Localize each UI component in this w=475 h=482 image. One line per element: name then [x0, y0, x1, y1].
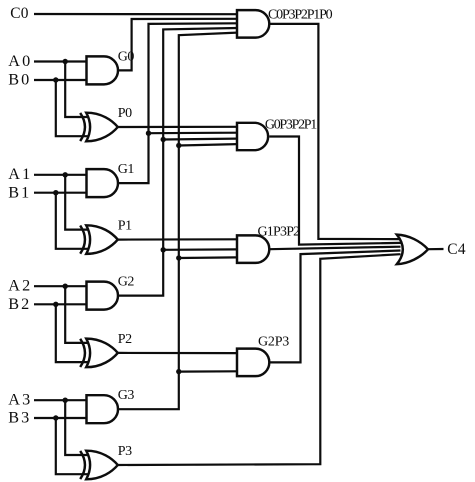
junction G3/U7: [176, 255, 181, 260]
junction A2: [62, 284, 67, 289]
wire G2 tap to AND U7 pin 2: [163, 248, 237, 251]
junction G3/U6: [176, 143, 181, 148]
wire G3 output bus: [118, 33, 237, 410]
wire B1 to XOR P1 pin 2: [56, 193, 89, 249]
svg-text:P3: P3: [118, 444, 132, 459]
junction G2/U6: [161, 137, 166, 142]
svg-text:G0P3P2P1: G0P3P2P1: [265, 118, 317, 133]
wire G2 output bus: [118, 28, 237, 296]
svg-text:C4: C4: [447, 241, 466, 258]
svg-text:G3: G3: [118, 388, 135, 403]
wire A0: [34, 60, 87, 62]
and-gate U5 C0P3P2P1P0: [237, 10, 269, 37]
wire G3 tap to AND U8 pin 2: [179, 370, 237, 373]
wire U7 output to OR U9 pin 3: [269, 247, 400, 250]
and-gate U6 G0P3P2P1: [237, 123, 268, 150]
svg-text:A0: A0: [8, 52, 32, 70]
xor-gate P2: [80, 339, 118, 368]
junction B2: [53, 302, 58, 307]
svg-text:P2: P2: [118, 332, 132, 347]
wire G0 output to AND U5 pin 2: [118, 19, 237, 71]
svg-text:P1: P1: [118, 219, 132, 234]
xor-gate P1: [80, 225, 118, 254]
wire B3: [34, 417, 87, 419]
wire A2: [34, 285, 87, 287]
svg-text:B2: B2: [8, 295, 31, 313]
wire P1 output to AND U7 pin 1: [118, 238, 237, 241]
junction G2/U7: [161, 247, 166, 252]
wire G3 tap to AND U7 pin 3: [179, 256, 237, 259]
junction B1: [53, 190, 58, 195]
wire B3 to XOR P3 pin 2: [56, 418, 89, 474]
and-gate G1: [87, 169, 119, 197]
wire P2 output to AND U8 pin 1: [118, 352, 237, 354]
xor-gate P3: [80, 451, 118, 480]
wire G1 output bus: [118, 23, 237, 183]
junction A0: [62, 59, 67, 64]
svg-text:B0: B0: [8, 71, 31, 89]
wire A1 to XOR P1 pin 1: [65, 175, 88, 230]
svg-text:G1: G1: [118, 162, 135, 177]
wire B0: [34, 79, 87, 81]
wire A3 to XOR P3 pin 1: [65, 400, 88, 455]
junction A3: [62, 398, 67, 403]
svg-text:A3: A3: [8, 391, 32, 409]
wire P0 output to AND U6 pin 1: [118, 126, 237, 128]
wire U5 output to OR U9 pin 1: [269, 24, 400, 239]
svg-text:G2P3: G2P3: [258, 335, 289, 350]
svg-text:G1P3P2: G1P3P2: [258, 225, 301, 240]
or-gate U9 C4: [397, 235, 428, 265]
wire A0 to XOR P0 pin 1: [65, 62, 88, 118]
svg-text:B1: B1: [8, 183, 31, 201]
junction B3: [53, 415, 58, 420]
wire G2 tap to AND U6 pin 3: [163, 138, 237, 141]
wire G1 tap to AND U6 pin 2: [149, 132, 238, 135]
wire A3: [34, 399, 87, 401]
svg-text:C0: C0: [10, 5, 29, 22]
wire C0 to AND U5 pin 1: [34, 13, 237, 15]
svg-text:C0P3P2P1P0: C0P3P2P1P0: [268, 8, 333, 23]
wire B1: [34, 192, 87, 194]
xor-gate P0: [80, 113, 118, 142]
and-gate G3: [87, 395, 119, 423]
wire P3 output to OR U9 pin 5: [118, 254, 401, 465]
and-gate U8 G2P3: [237, 349, 269, 377]
svg-text:G2: G2: [118, 275, 135, 290]
wire G3 tap to AND U6 pin 4: [179, 144, 237, 145]
svg-text:A1: A1: [8, 165, 32, 183]
and-gate U7 G1P3P2: [237, 235, 269, 263]
svg-text:P0: P0: [118, 106, 132, 121]
and-gate G0: [87, 56, 119, 84]
wire C4 output: [428, 248, 444, 250]
wire B2 to XOR P2 pin 2: [56, 304, 89, 362]
svg-text:B3: B3: [8, 409, 31, 427]
wire B0 to XOR P0 pin 2: [56, 80, 89, 136]
junction A1: [62, 172, 67, 177]
wire U8 output to OR U9 pin 4: [269, 251, 400, 363]
junction B0: [53, 77, 58, 82]
wire A2 to XOR P2 pin 1: [65, 286, 88, 343]
svg-text:A2: A2: [8, 277, 32, 295]
wire B2: [34, 303, 87, 305]
junction G1/U6: [146, 131, 151, 136]
junction G3/U8: [176, 369, 181, 374]
and-gate G2: [87, 282, 119, 310]
wire U6 output to OR U9 pin 2: [269, 137, 400, 245]
wire A1: [34, 174, 87, 176]
